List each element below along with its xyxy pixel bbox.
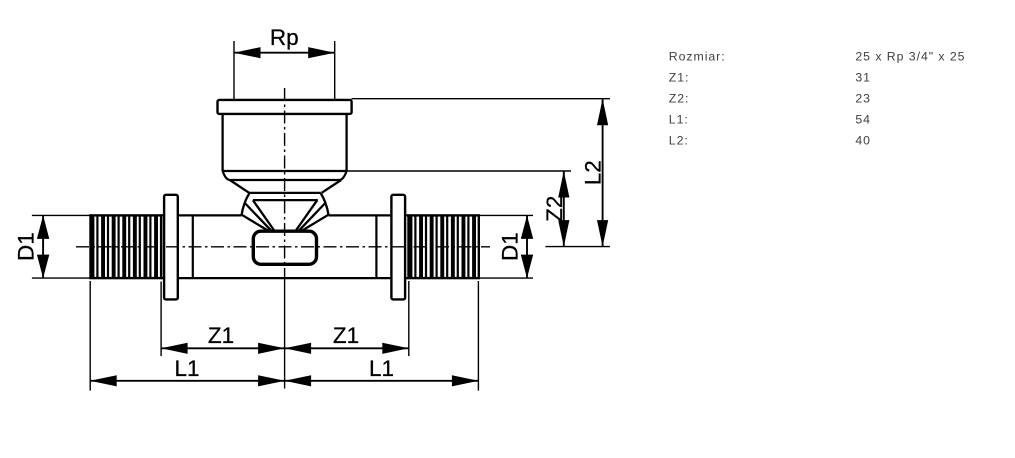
svg-text:23: 23 (855, 92, 871, 106)
svg-text:Z1: Z1 (208, 323, 234, 348)
svg-text:Rp: Rp (270, 25, 299, 50)
svg-text:D1: D1 (14, 232, 39, 261)
svg-text:Rozmiar:: Rozmiar: (669, 49, 726, 63)
svg-text:L1: L1 (369, 356, 394, 381)
svg-text:54: 54 (855, 113, 871, 127)
svg-text:Z1:: Z1: (669, 71, 690, 85)
svg-text:L1:: L1: (669, 113, 689, 127)
svg-text:31: 31 (855, 71, 871, 85)
svg-text:L1: L1 (174, 356, 199, 381)
svg-text:40: 40 (855, 134, 871, 148)
svg-text:L2:: L2: (669, 134, 689, 148)
svg-text:Z2: Z2 (542, 196, 567, 222)
svg-text:Z1: Z1 (333, 323, 359, 348)
svg-text:L2: L2 (581, 160, 606, 185)
svg-text:Z2:: Z2: (669, 92, 690, 106)
svg-text:D1: D1 (498, 232, 523, 261)
svg-text:25 x Rp 3/4" x 25: 25 x Rp 3/4" x 25 (855, 49, 965, 63)
